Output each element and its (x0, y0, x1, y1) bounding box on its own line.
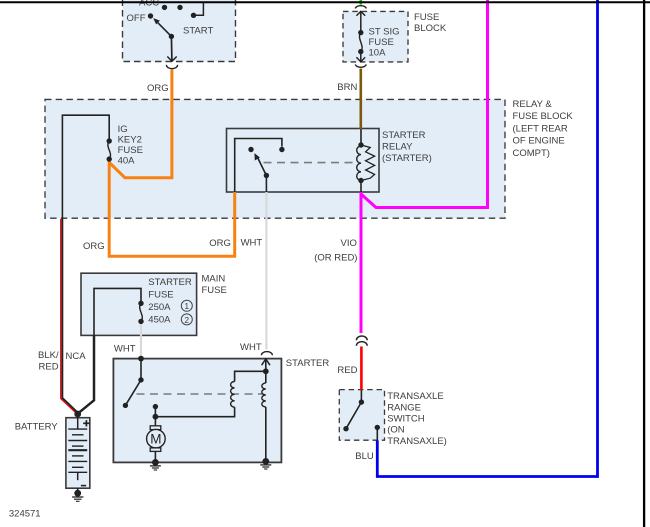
connector at starter input (261, 352, 272, 356)
svg-text:BRN: BRN (337, 82, 357, 93)
svg-text:BATTERY: BATTERY (15, 422, 59, 433)
wire WHT main fuse to starter (140, 324, 142, 359)
svg-text:2: 2 (184, 315, 189, 325)
svg-text:ORG: ORG (209, 238, 231, 249)
svg-text:COMPT): COMPT) (513, 148, 550, 159)
svg-text:STARTER: STARTER (382, 130, 426, 141)
motor M (154, 417, 156, 426)
pull-in winding branch (235, 371, 266, 381)
battery junction dot (74, 411, 81, 418)
wire ORG ig key2 fuse to relay (109, 161, 235, 256)
ground below solenoid (260, 465, 271, 469)
svg-text:40A: 40A (118, 156, 136, 167)
svg-text:(LEFT REAR: (LEFT REAR (513, 123, 568, 134)
svg-text:STARTER: STARTER (148, 277, 192, 288)
svg-text:324571: 324571 (9, 509, 41, 520)
connector below fuse block (355, 64, 366, 67)
svg-text:STARTER: STARTER (286, 358, 330, 369)
battery ground (77, 488, 79, 493)
wire RED to transaxle range switch (360, 347, 363, 391)
svg-text:450A: 450A (148, 315, 171, 326)
starter fuse (94, 288, 141, 335)
wire BLU from transaxle switch (377, 0, 597, 477)
svg-text:RANGE: RANGE (387, 402, 421, 413)
svg-text:FUSE: FUSE (118, 145, 143, 156)
wire WHT relay to starter (265, 192, 267, 349)
starter input dot left (138, 356, 144, 362)
relay output to WHT (265, 176, 267, 193)
wire BLK/RED battery to relay block (62, 218, 78, 413)
svg-text:(STARTER): (STARTER) (382, 153, 432, 164)
svg-text:NCA: NCA (66, 351, 87, 362)
svg-text:FUSE: FUSE (202, 285, 227, 296)
ignition output wire with arrow (170, 36, 173, 61)
ground below motor (150, 466, 161, 470)
wire GRN stub above fuse block (359, 0, 362, 5)
page borders (decorative) (0, 1, 650, 3)
svg-text:VIO: VIO (341, 238, 357, 249)
svg-text:ORG: ORG (147, 83, 169, 94)
svg-text:RED: RED (39, 361, 59, 372)
circled 1 (181, 300, 192, 311)
connector double arc VIO/RED (356, 336, 367, 340)
wire BLK main fuse to battery (78, 335, 94, 413)
svg-text:BLU: BLU (355, 451, 374, 462)
fuse block box (343, 11, 408, 62)
relay switch arm (264, 173, 269, 178)
hold-in winding (265, 371, 267, 383)
svg-text:OFF: OFF (127, 13, 146, 24)
relay & fuse block box (45, 99, 505, 218)
svg-text:ORG: ORG (83, 241, 105, 252)
ignition switch box (123, 0, 236, 62)
connector at fuse block top (355, 6, 366, 9)
relay control dashed line (264, 162, 357, 164)
svg-text:FUSE BLOCK: FUSE BLOCK (513, 111, 574, 122)
relay open contact (248, 147, 253, 152)
svg-text:FUSE: FUSE (148, 290, 173, 301)
battery box (66, 418, 90, 489)
svg-text:BLOCK: BLOCK (414, 23, 447, 34)
svg-text:RELAY &: RELAY & (513, 99, 553, 110)
relay input path (235, 139, 282, 193)
wire VIO relay coil up and out (360, 192, 363, 333)
svg-text:OF ENGINE: OF ENGINE (513, 136, 565, 147)
transaxle range switch box (339, 390, 384, 441)
svg-text:ACC: ACC (139, 0, 159, 9)
fuse ST SIG (360, 11, 362, 32)
starter switch (140, 359, 142, 380)
svg-text:1: 1 (184, 301, 189, 311)
ignition START contact (191, 13, 196, 18)
svg-text:SWITCH: SWITCH (387, 414, 425, 425)
svg-text:TRANSAXLE: TRANSAXLE (387, 391, 444, 402)
starter control dashed line (137, 393, 264, 395)
svg-text:(OR RED): (OR RED) (314, 252, 357, 263)
svg-text:RED: RED (337, 365, 357, 376)
svg-text:M: M (150, 432, 161, 447)
ignition position dots (162, 5, 167, 10)
ignition switch arm (169, 34, 174, 39)
transaxle range switch internals (359, 399, 364, 404)
svg-text:FUSE: FUSE (369, 37, 394, 48)
svg-text:10A: 10A (369, 48, 387, 59)
svg-text:MAIN: MAIN (202, 274, 226, 285)
fuse IG KEY2 (62, 115, 109, 218)
starter relay box (227, 129, 380, 193)
svg-text:WHT: WHT (240, 342, 262, 353)
svg-text:TRANSAXLE): TRANSAXLE) (387, 436, 447, 447)
wire ORG ignition switch to relay block (110, 70, 172, 178)
circled 2 (181, 314, 192, 325)
starter solenoid junction dot (263, 368, 269, 374)
starter input arrow right (265, 359, 267, 372)
main fuse box (81, 273, 197, 335)
starter box (113, 359, 281, 463)
wire BRN fuse block to starter relay (359, 69, 362, 129)
svg-text:KEY2: KEY2 (118, 135, 142, 146)
svg-text:250A: 250A (148, 302, 171, 313)
svg-text:(ON: (ON (387, 425, 405, 436)
svg-text:RELAY: RELAY (382, 142, 413, 153)
svg-text:BLK/: BLK/ (38, 350, 59, 361)
svg-text:FUSE: FUSE (414, 12, 439, 23)
relay coil (360, 129, 362, 145)
starter motor contact (153, 404, 158, 409)
svg-text:WHT: WHT (241, 238, 263, 249)
connector below ignition switch (166, 65, 177, 69)
svg-text:START: START (183, 26, 213, 37)
ignition OFF contact (148, 13, 153, 18)
svg-text:IG: IG (118, 124, 128, 135)
svg-text:WHT: WHT (114, 343, 136, 354)
